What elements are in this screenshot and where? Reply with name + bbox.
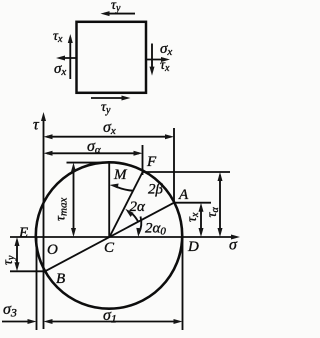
radius line C to M (vertical) <box>108 162 110 237</box>
svg-text:O: O <box>47 242 58 258</box>
svg-text:B: B <box>56 271 65 287</box>
tau_max dimension line <box>71 163 76 237</box>
tau_max extension line (horizontal at circle top) <box>67 162 110 164</box>
svg-text:E: E <box>18 225 28 241</box>
tau_y dimension line <box>15 237 20 271</box>
angle arc 2alpha0 (between CA and sigma axis) <box>136 217 141 238</box>
stress element square <box>77 22 147 93</box>
arrow sigma_x right (points right) <box>146 57 170 62</box>
sigma_alpha dimension line <box>44 151 143 156</box>
arrow sigma_x left (points left) <box>56 56 77 61</box>
svg-text:2α: 2α <box>130 199 147 215</box>
svg-text:F: F <box>146 154 157 170</box>
arrow tau_x left (points up) <box>68 34 73 79</box>
sigma_1 dimension line <box>44 319 183 324</box>
sigma_3 dimension line <box>2 319 37 324</box>
tau_x dimension line <box>199 203 204 237</box>
sigma_x dimension line <box>44 134 175 139</box>
svg-text:C: C <box>104 240 115 256</box>
extension line above F (vertical) <box>142 145 144 175</box>
diameter line B to A <box>45 203 174 272</box>
svg-text:τy: τy <box>111 0 121 14</box>
tau_alpha dimension line <box>218 172 223 237</box>
extension line above A (vertical) <box>173 128 175 203</box>
Mohr circle <box>36 162 182 308</box>
arrow tau_y top (points left) <box>101 11 136 16</box>
tau axis <box>41 112 46 329</box>
angle arc 2beta (between CF and CM) <box>110 184 134 191</box>
svg-text:A: A <box>178 187 189 203</box>
svg-text:σ: σ <box>229 237 238 254</box>
angle arc 2alpha (between CF and CA) <box>125 209 138 222</box>
svg-text:2β: 2β <box>148 182 164 198</box>
tau_alpha extension line (horizontal through F) <box>143 171 231 173</box>
radius line C to F <box>110 172 143 237</box>
tau_x extension line (horizontal through A) <box>174 202 211 204</box>
extension line through D (vertical) <box>182 237 184 330</box>
svg-text:D: D <box>187 239 199 255</box>
svg-text:M: M <box>113 167 128 183</box>
tau_y extension line (horizontal through B) <box>10 270 45 272</box>
sigma axis <box>10 235 240 240</box>
arrow tau_y bottom (points right) <box>91 96 131 101</box>
extension line through E (vertical) <box>36 237 38 330</box>
arrow tau_x right (points down) <box>150 44 155 76</box>
